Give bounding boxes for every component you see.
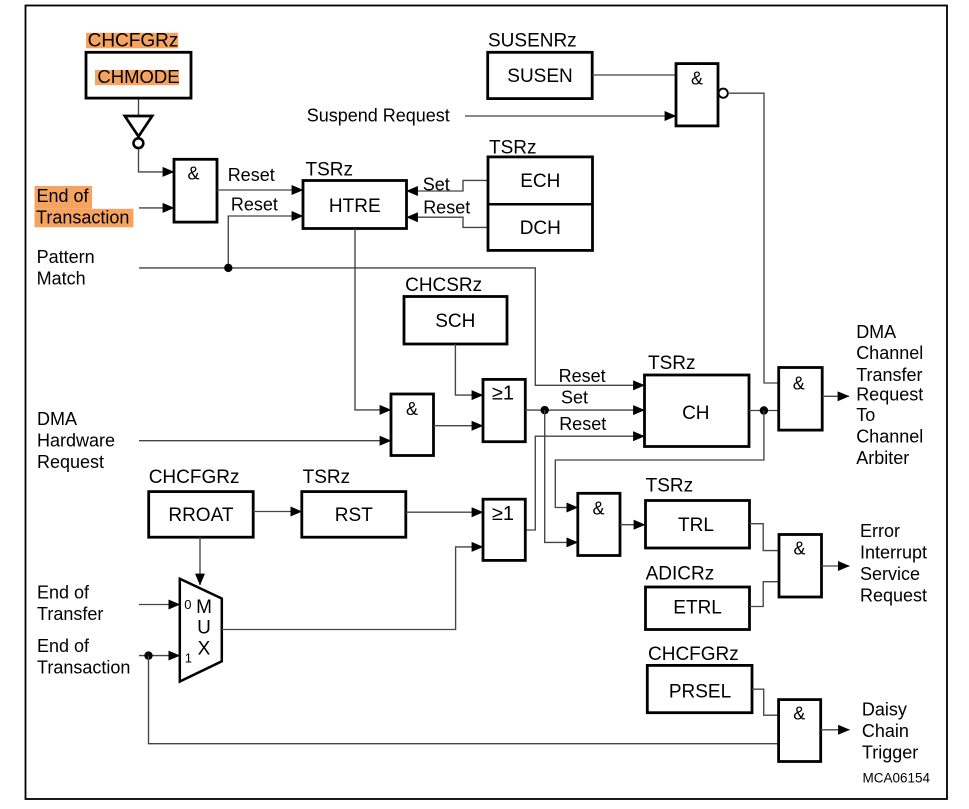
svg-text:PRSEL: PRSEL bbox=[669, 682, 731, 703]
svg-text:&: & bbox=[691, 69, 703, 89]
register RROAT bbox=[149, 492, 254, 538]
wire: G1 output Reset to HTRE input1 bbox=[217, 189, 303, 191]
svg-text:Channel: Channel bbox=[856, 426, 923, 446]
svg-text:SCH: SCH bbox=[435, 311, 475, 332]
register ETRL bbox=[646, 587, 750, 630]
svg-text:Daisy: Daisy bbox=[862, 700, 907, 720]
wire: CHMODE to inverter bbox=[138, 98, 140, 115]
svg-text:DMA: DMA bbox=[856, 322, 896, 342]
wire: pattern match line to CH reset1 bbox=[139, 268, 645, 385]
svg-text:CH: CH bbox=[682, 403, 709, 424]
svg-text:Error: Error bbox=[860, 521, 900, 541]
svg-text:Reset: Reset bbox=[231, 195, 278, 215]
and-gate G8 bbox=[779, 700, 821, 762]
svg-text:Service: Service bbox=[860, 564, 920, 584]
wire: OR G4 out up to CH input3 bbox=[525, 436, 644, 530]
svg-text:Request: Request bbox=[856, 384, 923, 404]
svg-text:U: U bbox=[197, 618, 211, 639]
wire: G3 out Set to CH input2 bbox=[525, 409, 644, 411]
svg-text:DMA: DMA bbox=[37, 409, 77, 429]
wire: NAND output down to AND G5 input1 bbox=[728, 93, 779, 383]
wire: G5 out arrow bbox=[822, 395, 849, 397]
wire: End of Transaction to AND G1 input2 bbox=[139, 207, 174, 209]
inverter U1 triangle bbox=[125, 116, 152, 137]
svg-text:&: & bbox=[793, 704, 805, 724]
and-gate G2 bbox=[391, 394, 434, 456]
wire: Set from ECH to HTRE bbox=[407, 180, 489, 191]
wire: TRL out to AND G7 input1 bbox=[750, 524, 780, 551]
svg-text:CHCSRz: CHCSRz bbox=[405, 275, 482, 296]
svg-text:Set: Set bbox=[561, 387, 588, 407]
svg-text:Transaction: Transaction bbox=[36, 208, 129, 228]
register SCH bbox=[404, 297, 507, 345]
wire: inverter to AND G1 input1 bbox=[139, 149, 175, 172]
svg-text:End of: End of bbox=[37, 582, 90, 602]
or-gate G4 bbox=[483, 499, 525, 560]
register RST bbox=[302, 492, 406, 538]
svg-text:Transfer: Transfer bbox=[856, 365, 922, 385]
and-gate G5 bbox=[779, 368, 823, 431]
and-gate G6 bbox=[578, 493, 620, 555]
svg-text:Chain: Chain bbox=[862, 721, 909, 741]
svg-text:CHCFGRz: CHCFGRz bbox=[648, 644, 739, 665]
wire: Reset from DCH to HTRE bbox=[407, 217, 489, 227]
register ECH / DCH bbox=[488, 157, 593, 251]
svg-text:Pattern: Pattern bbox=[37, 247, 95, 267]
wire: G8 out arrow bbox=[821, 729, 850, 731]
svg-text:Channel: Channel bbox=[856, 343, 923, 363]
svg-text:CHCFGRz: CHCFGRz bbox=[88, 30, 179, 51]
svg-text:ETRL: ETRL bbox=[673, 598, 722, 619]
svg-text:TSRz: TSRz bbox=[306, 159, 354, 180]
svg-text:RST: RST bbox=[335, 505, 373, 526]
node: set junction bbox=[541, 406, 549, 414]
svg-text:TSRz: TSRz bbox=[648, 353, 696, 374]
nand-gate G9 bbox=[676, 64, 718, 126]
inverter U1 bubble bbox=[134, 138, 144, 148]
wire: CH out to AND G5 input2 bbox=[749, 410, 779, 412]
node: end of transaction junction bbox=[144, 651, 152, 659]
wire: RROAT down to MUX select bbox=[199, 537, 201, 585]
svg-text:ADICRz: ADICRz bbox=[646, 564, 715, 585]
register CH bbox=[645, 375, 750, 447]
svg-text:CHMODE: CHMODE bbox=[97, 66, 179, 87]
wire: End of Transaction to MUX input1 bbox=[139, 655, 180, 657]
svg-text:&: & bbox=[793, 539, 805, 559]
svg-text:≥1: ≥1 bbox=[492, 503, 514, 525]
register TRL bbox=[646, 501, 750, 549]
register SUSEN bbox=[488, 52, 593, 98]
svg-text:Request: Request bbox=[860, 586, 927, 606]
svg-text:HTRE: HTRE bbox=[329, 196, 381, 217]
nand-gate G9 output bubble bbox=[719, 89, 728, 98]
svg-text:To: To bbox=[856, 405, 875, 425]
svg-text:Interrupt: Interrupt bbox=[860, 543, 927, 563]
wire: CH out feedback down to AND G6 input1 bbox=[555, 411, 764, 508]
wire: DMA hardware request to AND G2 input2 bbox=[139, 440, 391, 442]
svg-text:DCH: DCH bbox=[520, 218, 561, 239]
svg-text:ECH: ECH bbox=[520, 171, 560, 192]
or-gate G3 bbox=[483, 379, 525, 441]
wire: G6 out to TRL bbox=[620, 524, 645, 526]
svg-text:Transfer: Transfer bbox=[37, 604, 103, 624]
wire: End of Transaction down to daisy AND G8 input2 bbox=[149, 656, 779, 744]
svg-text:Reset: Reset bbox=[423, 198, 470, 218]
svg-text:M: M bbox=[196, 597, 212, 618]
wire: SUSEN to NAND input1 bbox=[592, 74, 676, 76]
node: CH out junction bbox=[760, 406, 768, 414]
svg-text:&: & bbox=[592, 498, 604, 518]
wire: ETRL out to AND G7 input2 bbox=[750, 582, 780, 607]
register PRSEL bbox=[647, 665, 752, 712]
svg-text:1: 1 bbox=[185, 650, 192, 665]
svg-text:Request: Request bbox=[37, 452, 104, 472]
svg-text:CHCFGRz: CHCFGRz bbox=[149, 467, 240, 488]
mux M1 bbox=[180, 579, 222, 682]
node: pattern junction bbox=[224, 264, 232, 272]
register HTRE bbox=[303, 181, 407, 229]
svg-text:TSRz: TSRz bbox=[646, 476, 694, 497]
wire: RST to OR G4 input1 bbox=[406, 511, 483, 513]
wire: set junction down to AND G6 input2 bbox=[545, 410, 578, 542]
wire: PRSEL out to AND G8 input1 bbox=[752, 689, 779, 715]
svg-text:0: 0 bbox=[184, 597, 191, 612]
svg-text:≥1: ≥1 bbox=[492, 382, 514, 404]
svg-text:Transaction: Transaction bbox=[37, 658, 130, 678]
svg-text:TSRz: TSRz bbox=[489, 138, 537, 159]
svg-text:TSRz: TSRz bbox=[303, 467, 351, 488]
svg-text:Set: Set bbox=[423, 174, 450, 194]
svg-text:TRL: TRL bbox=[678, 515, 714, 536]
svg-text:Reset: Reset bbox=[228, 165, 275, 185]
svg-text:SUSENRz: SUSENRz bbox=[488, 30, 577, 51]
svg-text:MCA06154: MCA06154 bbox=[863, 770, 931, 785]
svg-text:Trigger: Trigger bbox=[862, 743, 918, 763]
svg-text:X: X bbox=[198, 639, 211, 660]
svg-text:&: & bbox=[406, 399, 418, 419]
wire: G7 out arrow bbox=[822, 565, 850, 567]
svg-text:Hardware: Hardware bbox=[37, 431, 115, 451]
and-gate G7 bbox=[779, 535, 822, 598]
wire: HTRE bottom to AND G2 input1 bbox=[355, 229, 391, 410]
svg-text:Arbiter: Arbiter bbox=[856, 448, 909, 468]
wire: pattern match riser to HTRE input2 bbox=[228, 216, 303, 268]
register label CHCFGRz (CHMODE) highlighted bbox=[86, 33, 178, 49]
svg-text:Suspend Request: Suspend Request bbox=[307, 106, 450, 126]
and-gate G1 bbox=[174, 159, 217, 222]
svg-text:End of: End of bbox=[37, 636, 90, 656]
wire: RROAT to RST bbox=[253, 511, 302, 513]
wire: MUX out up to OR G4 input2 bbox=[222, 547, 483, 630]
svg-text:Reset: Reset bbox=[559, 366, 606, 386]
svg-text:&: & bbox=[187, 164, 199, 184]
wire: G2 out to OR G3 input2 bbox=[434, 425, 484, 427]
wire: Suspend Request to NAND input2 bbox=[465, 115, 676, 117]
svg-text:&: & bbox=[793, 373, 805, 393]
register CHMODE bbox=[86, 52, 191, 98]
svg-text:End of: End of bbox=[37, 186, 90, 206]
wire: End of Transfer to MUX input0 bbox=[139, 604, 180, 606]
svg-text:Match: Match bbox=[37, 268, 86, 288]
svg-text:SUSEN: SUSEN bbox=[507, 66, 572, 87]
label End of Transaction (highlighted) bbox=[35, 186, 93, 209]
svg-text:Reset: Reset bbox=[559, 414, 606, 434]
wire: SCH down to OR G3 input1 bbox=[455, 344, 483, 395]
svg-text:RROAT: RROAT bbox=[168, 505, 233, 526]
